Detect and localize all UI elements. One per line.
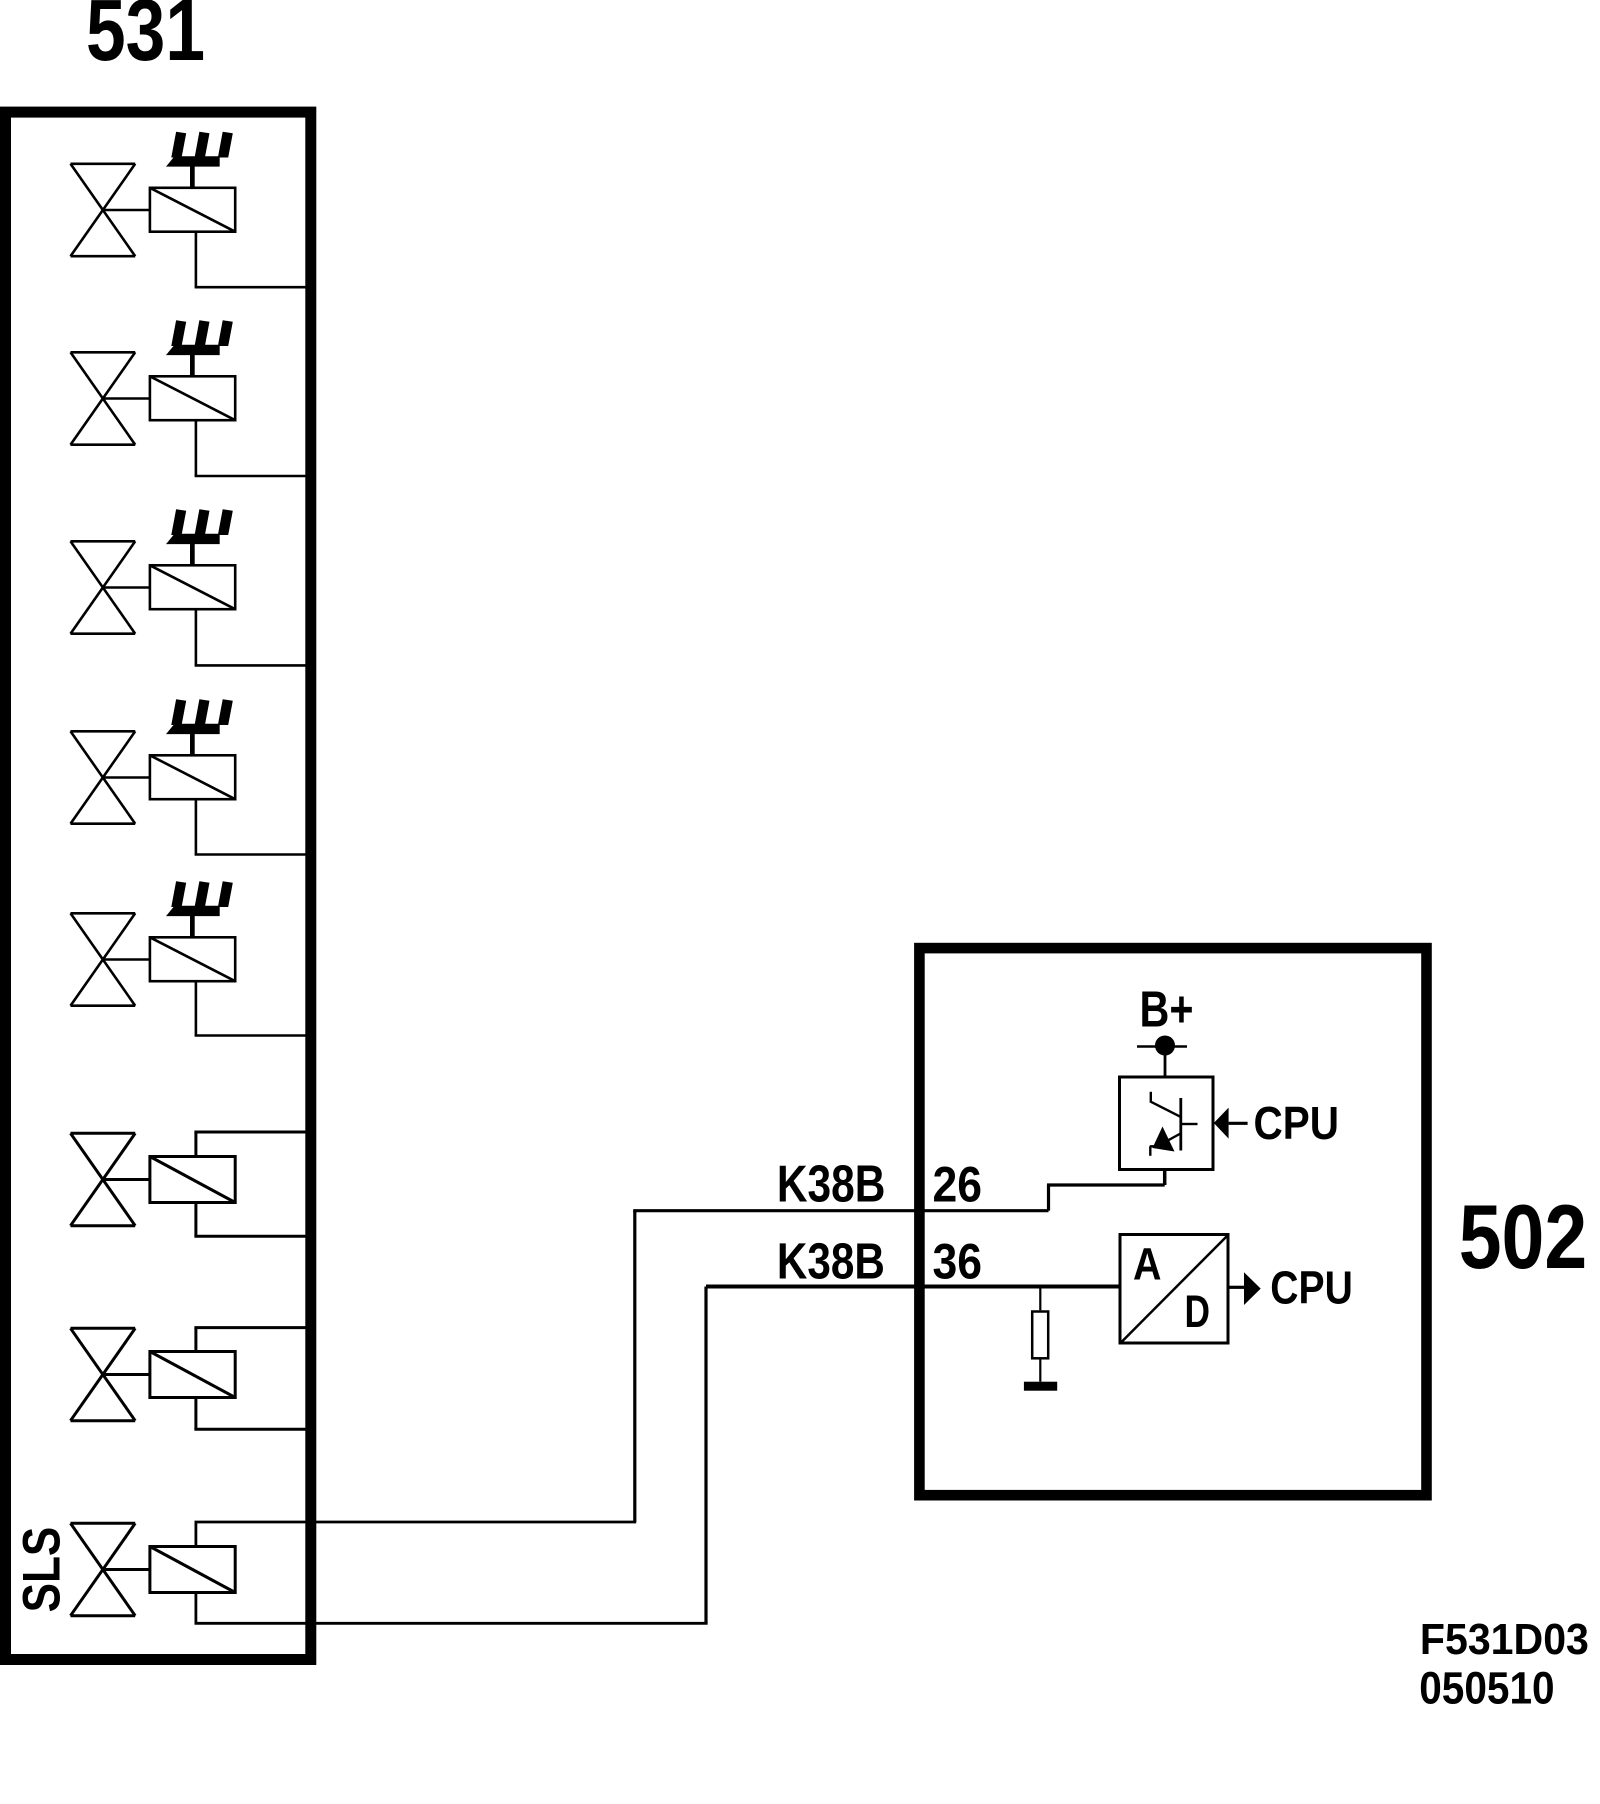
svg-text:531: 531 [86,0,205,79]
svg-text:B+: B+ [1140,981,1194,1038]
svg-text:K38B: K38B [777,1232,885,1289]
svg-text:26: 26 [933,1157,983,1213]
svg-text:D: D [1185,1286,1211,1337]
svg-text:F531D03: F531D03 [1420,1616,1589,1664]
svg-text:CPU: CPU [1270,1262,1353,1314]
svg-text:502: 502 [1459,1187,1588,1288]
svg-text:SLS: SLS [13,1527,72,1613]
svg-text:36: 36 [933,1233,983,1289]
svg-text:K38B: K38B [777,1156,886,1214]
svg-text:CPU: CPU [1254,1097,1340,1149]
svg-text:A: A [1133,1239,1162,1290]
svg-text:050510: 050510 [1419,1662,1554,1713]
